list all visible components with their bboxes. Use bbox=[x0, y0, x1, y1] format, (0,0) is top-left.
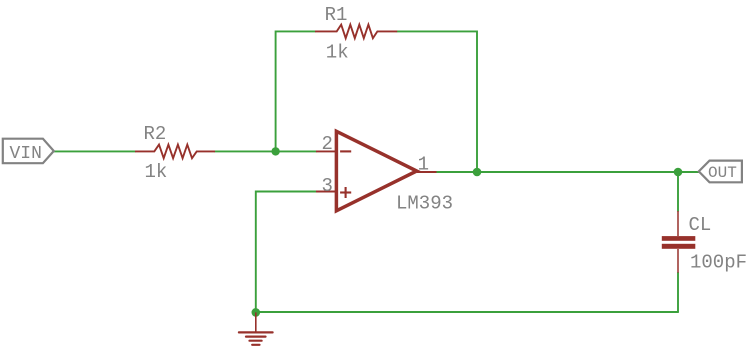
svg-text:1: 1 bbox=[418, 154, 429, 176]
svg-text:1k: 1k bbox=[145, 161, 168, 183]
svg-text:OUT: OUT bbox=[708, 164, 737, 182]
svg-text:2: 2 bbox=[322, 133, 333, 155]
svg-text:LM393: LM393 bbox=[396, 193, 453, 215]
svg-text:3: 3 bbox=[322, 175, 333, 197]
svg-text:R2: R2 bbox=[144, 123, 167, 145]
svg-text:1k: 1k bbox=[326, 42, 349, 64]
svg-text:100pF: 100pF bbox=[690, 252, 747, 274]
svg-text:R1: R1 bbox=[325, 4, 348, 26]
svg-text:CL: CL bbox=[689, 214, 712, 236]
svg-text:VIN: VIN bbox=[10, 144, 42, 164]
